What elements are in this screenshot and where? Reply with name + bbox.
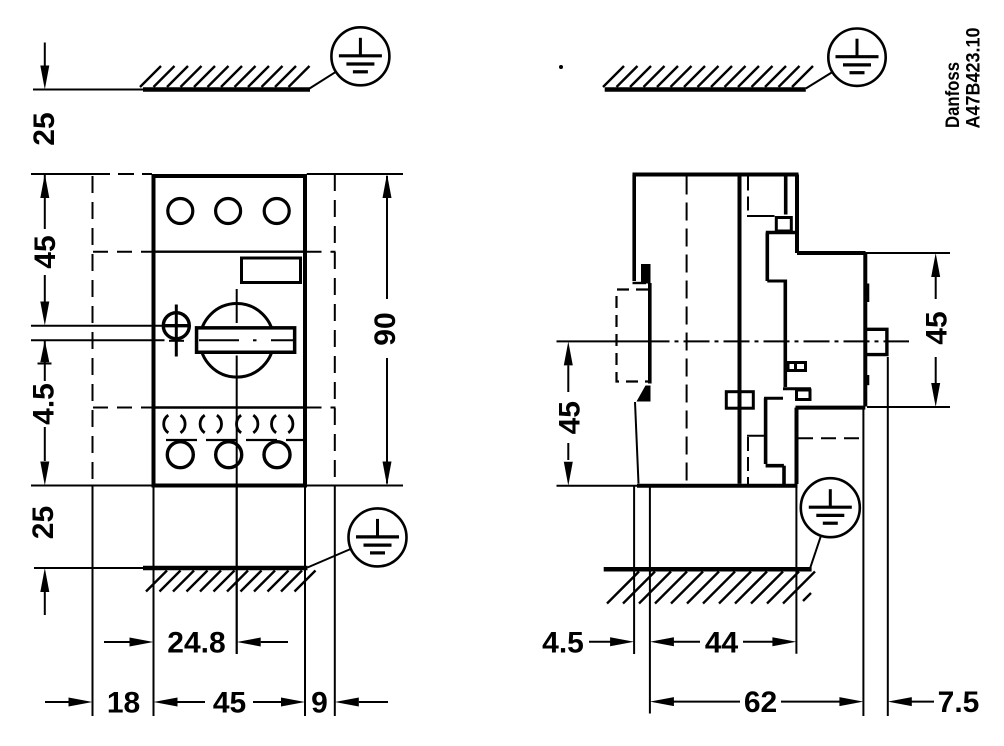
dimension row 62 / 7.5 <box>673 701 934 703</box>
vertical centre line of knob <box>236 289 238 654</box>
wall surface top-right <box>605 87 806 92</box>
side view top edge <box>633 173 799 177</box>
extension line bottom edge of side view <box>557 485 638 487</box>
bottom step <box>796 406 866 410</box>
dimension labels <box>27 112 979 719</box>
top terminal circles <box>168 199 289 224</box>
svg-text:90: 90 <box>369 312 402 345</box>
rotary knob circle <box>200 304 274 378</box>
svg-text:Danfoss: Danfoss <box>943 62 964 128</box>
mounting clamp <box>726 392 753 409</box>
leader to earth symbol top-right <box>806 72 833 89</box>
extension line bottom edge left <box>31 485 152 487</box>
earth symbol bottom-right <box>801 478 860 537</box>
hatching top-left wall <box>140 66 310 87</box>
bottom terminal circles <box>167 442 290 468</box>
extension line top edge right <box>307 173 403 175</box>
svg-text:45: 45 <box>213 687 246 720</box>
dimension 24.8 <box>104 641 288 643</box>
extension line cross centre (left) <box>31 325 163 327</box>
dimension 90 <box>386 176 388 484</box>
main internal vertical <box>738 177 742 484</box>
centre line of side view <box>557 340 910 342</box>
terminal block outer vertical top <box>784 177 788 215</box>
earth symbol top-right <box>828 29 885 86</box>
wall surface bottom-left <box>34 567 308 569</box>
hatching bottom-right wall <box>607 572 815 604</box>
svg-text:25: 25 <box>28 112 61 145</box>
shelf <box>766 231 796 235</box>
shelf box <box>776 218 791 232</box>
svg-text:4.5: 4.5 <box>542 626 584 659</box>
svg-text:45: 45 <box>921 311 954 344</box>
dashed outline extension left (18 width) <box>92 176 94 486</box>
edge bump upper <box>866 284 870 303</box>
svg-text:A47B423.10: A47B423.10 <box>964 28 985 129</box>
hidden edge bottom <box>747 436 766 484</box>
handle centre line dash-dot <box>199 339 294 341</box>
svg-text:7.5: 7.5 <box>938 686 980 719</box>
wall surface top-left <box>33 89 310 91</box>
svg-text:4.5: 4.5 <box>28 383 61 425</box>
extension line bottom edge right <box>307 485 403 487</box>
top step to right <box>797 251 866 255</box>
extension verticals below front view <box>93 486 335 716</box>
divider line upper <box>155 250 304 252</box>
top block right edge <box>795 175 799 254</box>
edge bump lower <box>866 375 870 385</box>
dashed divider extensions <box>93 252 336 408</box>
wall surface bottom-right <box>604 567 812 572</box>
front face mid <box>783 280 787 388</box>
svg-text:45: 45 <box>29 235 62 268</box>
side view left edge <box>632 175 636 282</box>
stray dot <box>559 65 563 69</box>
leader to earth symbol bottom-right <box>810 536 821 568</box>
knob handle <box>197 328 295 352</box>
DIN rail dashed outline <box>617 290 649 382</box>
right edge <box>863 253 867 407</box>
rail hook step <box>633 282 647 284</box>
leader to earth symbol top-left <box>310 72 336 89</box>
front face upper <box>765 233 769 282</box>
divider line lower <box>155 406 304 408</box>
rail hook tab (filled) <box>641 264 651 284</box>
shaft boss <box>866 329 887 354</box>
extension verticals below side view <box>634 357 888 716</box>
reset button cross circle <box>163 305 191 357</box>
front face lower <box>764 398 768 464</box>
dimension 45 left of side view <box>567 365 569 460</box>
extension line knob centre (left) <box>31 339 184 342</box>
lower clip slanted edge <box>635 402 639 484</box>
left dimension chain (25 / 45 / 4.5 / 25) <box>38 43 52 616</box>
lower face vertical <box>782 466 786 484</box>
svg-text:24.8: 24.8 <box>167 627 225 660</box>
dashed terminal circles <box>164 415 293 433</box>
dashed outline extension right (9 width) <box>334 174 336 486</box>
label window <box>242 258 301 283</box>
dashed internal vertical <box>686 177 688 484</box>
side view bottom edge <box>637 484 798 488</box>
dimension row 18 / 45 / 9 <box>45 701 388 703</box>
svg-text:9: 9 <box>311 687 328 720</box>
svg-text:18: 18 <box>107 687 140 720</box>
breaker front view body <box>154 176 306 486</box>
rail channel face <box>648 283 652 384</box>
extension line top edge left <box>31 173 152 175</box>
svg-text:62: 62 <box>744 686 777 719</box>
lower face step <box>766 464 784 468</box>
face connector <box>764 397 783 400</box>
small tab 2 box <box>797 390 811 400</box>
hidden dashed line in terminal zone <box>166 439 306 441</box>
lower rail clip (filled) <box>637 386 651 402</box>
small tab 2 bar <box>783 387 811 390</box>
face step <box>767 280 785 283</box>
title text Danfoss A47B423.10 <box>943 28 985 129</box>
bottom right vertical <box>795 408 799 484</box>
hidden edge top <box>747 177 775 217</box>
dimension 45 right of side view <box>866 253 951 407</box>
svg-text:25: 25 <box>27 506 60 539</box>
hatching top-right wall <box>603 66 813 87</box>
earth symbol bottom-left <box>349 508 407 566</box>
dimension row 4.5 / 44 <box>589 641 773 643</box>
svg-text:45: 45 <box>554 401 587 434</box>
leader to earth symbol bottom-left <box>308 549 351 568</box>
hatching bottom-left wall <box>146 571 316 592</box>
small tab 1 <box>788 361 806 372</box>
hidden dashed edge lower right <box>798 437 861 439</box>
earth symbol top-left <box>331 27 389 85</box>
svg-text:44: 44 <box>705 626 739 659</box>
